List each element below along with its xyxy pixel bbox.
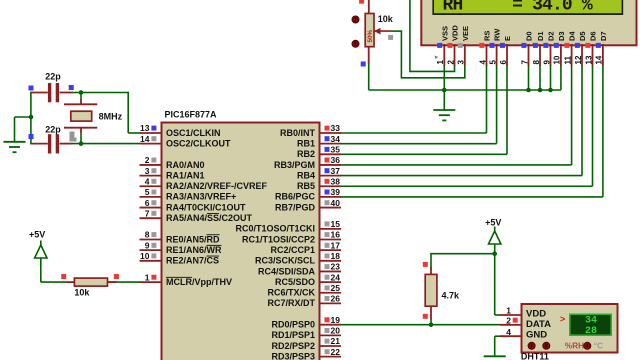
svg-text:RA0/AN0: RA0/AN0 (166, 160, 205, 170)
svg-text:%RH: %RH (565, 340, 584, 350)
svg-text:28: 28 (585, 326, 597, 337)
svg-text:RB1: RB1 (297, 138, 315, 148)
svg-text:D3: D3 (557, 31, 566, 41)
svg-text:10: 10 (553, 55, 562, 64)
svg-text:22: 22 (331, 347, 341, 357)
svg-text:D6: D6 (589, 31, 598, 41)
svg-text:°C: °C (594, 340, 603, 350)
svg-text:4: 4 (506, 327, 511, 337)
svg-text:18: 18 (331, 251, 341, 261)
svg-text:1: 1 (506, 306, 511, 316)
svg-text:VDD: VDD (526, 308, 546, 319)
svg-text:20: 20 (331, 326, 341, 336)
svg-text:10k: 10k (378, 14, 394, 24)
svg-text:33: 33 (331, 123, 341, 133)
svg-text:RW: RW (493, 28, 502, 41)
svg-text:5: 5 (488, 60, 497, 65)
svg-text:GND: GND (526, 329, 547, 340)
svg-text:36: 36 (331, 155, 341, 165)
svg-text:RH = 34.0 %: RH = 34.0 % (443, 0, 593, 16)
svg-text:12: 12 (574, 55, 583, 64)
svg-text:10k: 10k (74, 288, 90, 298)
svg-text:RC6/TX/CK: RC6/TX/CK (267, 288, 315, 298)
svg-text:RB2: RB2 (297, 149, 315, 159)
svg-text:4: 4 (145, 176, 150, 186)
svg-text:RC4/SDI/SDA: RC4/SDI/SDA (258, 266, 316, 276)
svg-text:14: 14 (595, 55, 604, 64)
svg-text:E: E (503, 36, 512, 41)
svg-text:1: 1 (145, 272, 150, 282)
svg-text:6: 6 (499, 60, 508, 65)
svg-text:RD3/PSP3: RD3/PSP3 (271, 351, 315, 360)
svg-text:8: 8 (532, 60, 541, 65)
svg-text:RC2/CCP1: RC2/CCP1 (270, 245, 315, 255)
svg-text:38: 38 (331, 176, 341, 186)
svg-text:RB6/PGC: RB6/PGC (275, 192, 316, 202)
svg-text:VSS: VSS (440, 26, 449, 41)
svg-text:22p: 22p (45, 124, 61, 134)
svg-text:17: 17 (331, 240, 341, 250)
svg-text:16: 16 (331, 230, 341, 240)
svg-text:RB7/PGD: RB7/PGD (275, 202, 316, 212)
svg-text:21: 21 (331, 336, 341, 346)
svg-text:RC7/RX/DT: RC7/RX/DT (267, 298, 315, 308)
svg-text:4: 4 (478, 60, 487, 65)
svg-text:+5V: +5V (29, 230, 45, 240)
svg-text:RE2/AN7/CS: RE2/AN7/CS (166, 256, 219, 266)
svg-text:+5V: +5V (485, 218, 501, 228)
svg-text:7: 7 (520, 60, 529, 65)
svg-text:3: 3 (145, 166, 150, 176)
svg-text:9: 9 (542, 60, 551, 65)
svg-text:RB3/PGM: RB3/PGM (274, 160, 315, 170)
svg-text:D0: D0 (525, 31, 534, 41)
svg-text:26: 26 (331, 294, 341, 304)
svg-text:15: 15 (331, 219, 341, 229)
svg-text:19: 19 (331, 315, 341, 325)
svg-text:RD2/PSP2: RD2/PSP2 (271, 341, 315, 351)
svg-text:39: 39 (331, 187, 341, 197)
svg-text:40: 40 (331, 198, 341, 208)
svg-text:34: 34 (585, 315, 597, 326)
svg-text:8MHz: 8MHz (99, 111, 123, 121)
svg-text:10: 10 (140, 251, 150, 261)
svg-text:>: > (560, 314, 565, 324)
svg-text:25: 25 (331, 283, 341, 293)
svg-text:OSC2/CLKOUT: OSC2/CLKOUT (166, 138, 231, 148)
svg-text:RC5/SDO: RC5/SDO (275, 277, 315, 287)
svg-text:RB0/INT: RB0/INT (280, 128, 316, 138)
svg-text:RE1/AN6/WR: RE1/AN6/WR (166, 245, 222, 255)
svg-text:34: 34 (331, 134, 341, 144)
svg-text:11: 11 (563, 55, 572, 64)
svg-text:RA5/AN4/SS/C2OUT: RA5/AN4/SS/C2OUT (166, 213, 253, 223)
svg-text:RB4: RB4 (297, 170, 315, 180)
svg-text:RD0/PSP0: RD0/PSP0 (271, 320, 315, 330)
svg-text:2: 2 (446, 60, 455, 65)
svg-text:OSC1/CLKIN: OSC1/CLKIN (166, 128, 221, 138)
svg-text:9: 9 (145, 240, 150, 250)
svg-text:35: 35 (331, 145, 341, 155)
svg-text:RD1/PSP1: RD1/PSP1 (271, 330, 315, 340)
svg-text:RA1/AN1: RA1/AN1 (166, 170, 205, 180)
svg-text:5: 5 (145, 187, 150, 197)
svg-text:RA3/AN3/VREF+: RA3/AN3/VREF+ (166, 192, 236, 202)
svg-text:13: 13 (140, 123, 150, 133)
svg-text:13: 13 (584, 55, 593, 64)
svg-text:14: 14 (140, 134, 150, 144)
svg-text:8: 8 (145, 230, 150, 240)
svg-text:D2: D2 (547, 31, 556, 41)
svg-text:4.7k: 4.7k (442, 290, 461, 300)
svg-text:DATA: DATA (526, 319, 551, 330)
svg-text:RC0/T1OSO/T1CKI: RC0/T1OSO/T1CKI (235, 224, 315, 234)
svg-text:RE0/AN5/RD: RE0/AN5/RD (166, 234, 220, 244)
svg-text:RC3/SCK/SCL: RC3/SCK/SCL (255, 256, 316, 266)
svg-text:RS: RS (483, 31, 492, 41)
svg-text:RA4/T0CKI/C1OUT: RA4/T0CKI/C1OUT (166, 202, 246, 212)
svg-text:D1: D1 (536, 31, 545, 41)
svg-text:24: 24 (331, 272, 341, 282)
svg-text:RB5: RB5 (297, 181, 315, 191)
svg-text:23: 23 (331, 262, 341, 272)
svg-text:22p: 22p (45, 72, 61, 82)
svg-text:37: 37 (331, 166, 341, 176)
svg-text:2: 2 (506, 316, 511, 326)
svg-text:D4: D4 (568, 31, 577, 41)
svg-text:2: 2 (145, 155, 150, 165)
svg-text:3: 3 (457, 60, 466, 65)
svg-text:D7: D7 (599, 31, 608, 41)
svg-text:7: 7 (145, 208, 150, 218)
svg-text:RA2/AN2/VREF-/CVREF: RA2/AN2/VREF-/CVREF (166, 181, 268, 191)
svg-text:D5: D5 (578, 31, 587, 41)
svg-text:VEE: VEE (461, 26, 470, 41)
svg-text:50%: 50% (367, 29, 374, 42)
svg-text:1: 1 (436, 60, 445, 65)
svg-text:RC1/T1OSI/CCP2: RC1/T1OSI/CCP2 (242, 234, 315, 244)
svg-text:MCLR/Vpp/THV: MCLR/Vpp/THV (166, 277, 232, 287)
svg-text:6: 6 (145, 198, 150, 208)
svg-text:DHT11: DHT11 (521, 352, 549, 360)
svg-text:VDD: VDD (451, 25, 460, 41)
svg-text:PIC16F877A: PIC16F877A (165, 110, 218, 120)
